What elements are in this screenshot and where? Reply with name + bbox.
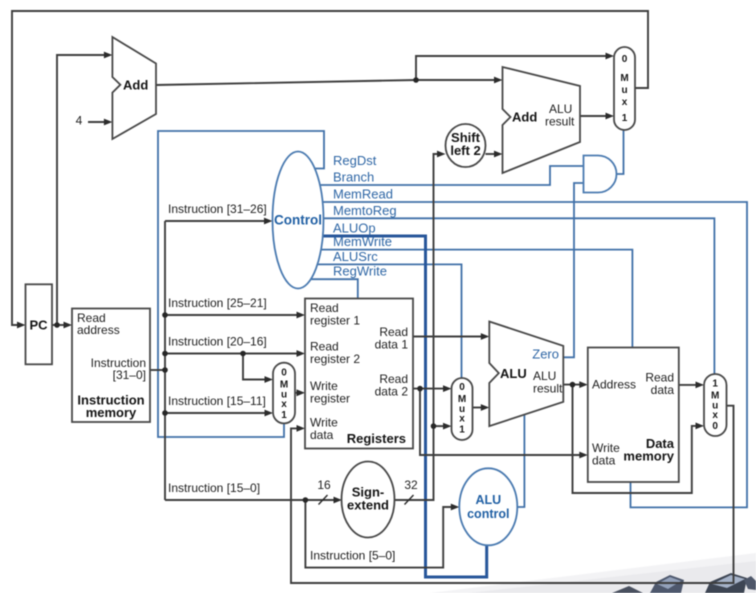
svg-text:result: result [545,115,575,129]
node bus Instr[25-21] [162,312,168,318]
svg-text:1: 1 [622,113,628,124]
control ellipse [273,152,324,289]
svg-text:Zero: Zero [532,347,559,362]
svg-text:Add: Add [512,110,537,125]
node sign extend branch [431,423,437,429]
mux ALUSrc [452,378,473,440]
wire ALUOp (thick) control to ALU control [300,236,487,577]
arrow into shift left 2 [437,151,446,158]
svg-text:data: data [651,383,675,397]
key cap 2 [650,575,684,593]
wire ALU result to data memory address [563,384,580,386]
svg-text:data 2: data 2 [375,385,409,399]
wire ALU result wrap to final mux input 0 [573,385,698,493]
arrow PC+4 into PCSrc mux 0 [606,53,615,60]
svg-text:0: 0 [281,368,287,379]
wire Instruction[25-21] to read register 1 [165,314,298,316]
svg-text:Address: Address [592,378,636,392]
wire ALUSrc to ALU mux top [300,264,462,378]
wire read data 2 branch to data memory write data [420,389,581,455]
ALU [489,322,563,427]
wire Instruction[15-0] to sign extend [165,499,335,501]
wire shift left 2 output to branch adder [486,153,496,155]
wire PC up to Add [57,55,105,325]
svg-text:register 1: register 1 [310,314,360,328]
arrow into ALU control [451,504,460,511]
arrow into data memory write data [579,452,588,459]
wire RegDst mux output to write register [295,392,298,394]
AND gate [584,156,617,193]
wire Branch to AND gate [300,166,584,185]
wire sign extend branch to ALUSrc mux input 1 [434,425,445,427]
svg-text:ALU: ALU [475,493,501,507]
arrow into PC [17,322,26,329]
arrow into final mux 0 [696,423,705,430]
wire RegDst routing (control to write-register mux) [158,131,324,437]
wire MemRead to data memory bottom [300,202,747,507]
data memory box [588,348,679,483]
svg-text:Instruction [5–0]: Instruction [5–0] [310,549,395,563]
wire RegWrite to registers top [300,279,358,298]
svg-text:data 1: data 1 [375,338,409,352]
wire MemtoReg to final mux top [300,218,714,374]
arrow into read register 2 [297,350,306,357]
node PC out [54,322,60,328]
svg-text:ALUSrc: ALUSrc [333,249,378,264]
node read data 2 [417,386,423,392]
svg-text:memory: memory [623,449,674,464]
arrow into read register 1 [297,312,306,319]
node bus instr out [162,367,168,373]
svg-text:[31–0]: [31–0] [113,368,146,382]
svg-text:extend: extend [347,498,389,513]
arrow into control [264,218,273,225]
arrow into ALU input 2 [481,404,490,411]
svg-text:M: M [620,73,628,84]
slash 16 [319,495,328,505]
ALU control ellipse [459,468,517,545]
wire data memory read data to final mux input 1 [679,384,697,386]
svg-text:Add: Add [123,78,148,93]
svg-text:16: 16 [317,478,331,492]
svg-text:RegDst: RegDst [333,153,377,168]
svg-text:Instruction [15–0]: Instruction [15–0] [168,481,260,495]
wire constant 4 into Add [88,121,105,123]
wire Zero to AND gate input [563,183,583,357]
arrow into ALUSrc mux 1 [443,423,452,430]
arrow 4 into Add [104,119,113,126]
svg-text:Instruction [31–26]: Instruction [31–26] [168,202,267,216]
sign extend ellipse [342,462,395,538]
wire Instruction[5-0] to ALU control [305,500,452,568]
svg-text:result: result [533,382,563,396]
svg-text:x: x [459,414,465,425]
wire final mux output writeback loop to registers write data [291,406,734,583]
wire PC feedback loop from PCSrc mux around top to PC [12,11,648,325]
wire sign extend output up to shift left 2 [395,154,439,500]
svg-text:RegWrite: RegWrite [333,264,387,279]
svg-text:0: 0 [459,382,465,393]
svg-text:MemtoReg: MemtoReg [333,203,397,218]
arrow into write data registers [297,425,306,432]
wire AND output to PCSrc mux bottom [617,130,624,174]
register PC [26,284,53,364]
wire read data 2 to ALUSrc mux input 0 [413,388,445,390]
key cap 1 [612,586,643,593]
svg-text:4: 4 [76,114,83,128]
svg-text:control: control [467,507,509,521]
wire PC to instruction memory [52,324,66,326]
svg-text:MemRead: MemRead [333,187,393,202]
svg-text:Instruction [20–16]: Instruction [20–16] [168,335,267,349]
arrow into RegDst mux 0 [265,376,274,383]
svg-text:1: 1 [281,410,287,421]
adder Add (PC+4) [112,37,156,139]
registers box [305,299,413,449]
svg-text:Branch: Branch [333,170,374,185]
svg-text:ALU: ALU [500,366,527,381]
svg-text:register: register [310,392,350,406]
svg-text:PC: PC [29,318,48,333]
wire ALUSrc mux output to ALU [472,407,482,409]
arrow into RegDst mux 1 [265,410,274,417]
arrow into final mux 1 [696,382,705,389]
wire read data 1 to ALU [413,336,482,338]
arrow shift output into branch adder [494,151,503,158]
mux MemtoReg [704,374,727,436]
arrow into instruction memory read address [64,322,73,329]
photo wedge background bottom right [430,553,756,593]
wire Instruction[31-26] into Control [165,220,266,222]
shift left 2 ellipse [446,124,486,167]
wire Instruction[20-16] branch to RegDst mux input 0 [243,354,266,380]
svg-text:Control: Control [274,213,322,228]
node Instr[15-0] [303,497,309,503]
wire Instruction[20-16] to read register 2 [165,353,298,355]
svg-text:Registers: Registers [347,431,406,446]
wire Add output PC+4 [156,80,496,85]
arrow into data memory address [579,381,588,388]
instruction memory box [72,309,150,423]
svg-text:1: 1 [712,379,718,390]
node bus Instr[20-16] [162,351,168,357]
svg-text:data: data [592,454,616,468]
wire MemWrite to data memory top [300,250,632,348]
svg-text:x: x [281,399,287,410]
svg-text:data: data [310,428,334,442]
adder Add ALU result (branch) [503,67,581,173]
arrow into sign extend [334,497,343,504]
svg-text:address: address [77,323,120,337]
node bus Instr[15-11] [162,410,168,416]
wire branch adder output to PCSrc mux input 1 [580,115,607,117]
svg-text:register 2: register 2 [310,352,360,366]
svg-text:0: 0 [622,54,628,65]
slash 32 [405,495,414,505]
wire PC+4 branch up to PCSrc mux input 0 [416,56,607,80]
arrow into ALUSrc mux 0 [443,385,452,392]
arrow into write register [297,389,306,396]
svg-text:x: x [712,410,718,421]
mux PCSrc [614,47,635,130]
svg-text:1: 1 [459,425,465,436]
node PC+4 [413,77,419,83]
arrow into Add top [104,52,113,59]
svg-text:Instruction [25–21]: Instruction [25–21] [168,296,267,310]
node ALU result [570,382,576,388]
svg-text:left 2: left 2 [450,143,480,158]
mux RegDst [273,363,295,424]
wire Instruction[15-11] to RegDst mux input 1 [165,412,266,414]
svg-text:32: 32 [404,478,418,492]
arrow branch target into PCSrc mux 1 [606,113,615,120]
wire instruction memory output to bus [150,369,165,371]
node Instr[20-16] branch [240,351,246,357]
svg-text:Instruction [15–11]: Instruction [15–11] [168,394,266,408]
svg-text:0: 0 [712,421,718,432]
svg-text:memory: memory [86,405,137,420]
arrow PC+4 into branch adder [494,77,503,84]
arrow into ALU input 1 [481,333,490,340]
key cap 3 [705,573,747,593]
svg-text:x: x [622,97,628,108]
svg-text:MemWrite: MemWrite [333,234,392,249]
wire instruction bus vertical [164,221,166,500]
wire ALU control output to ALU bottom [517,415,524,508]
svg-text:u: u [621,85,627,96]
